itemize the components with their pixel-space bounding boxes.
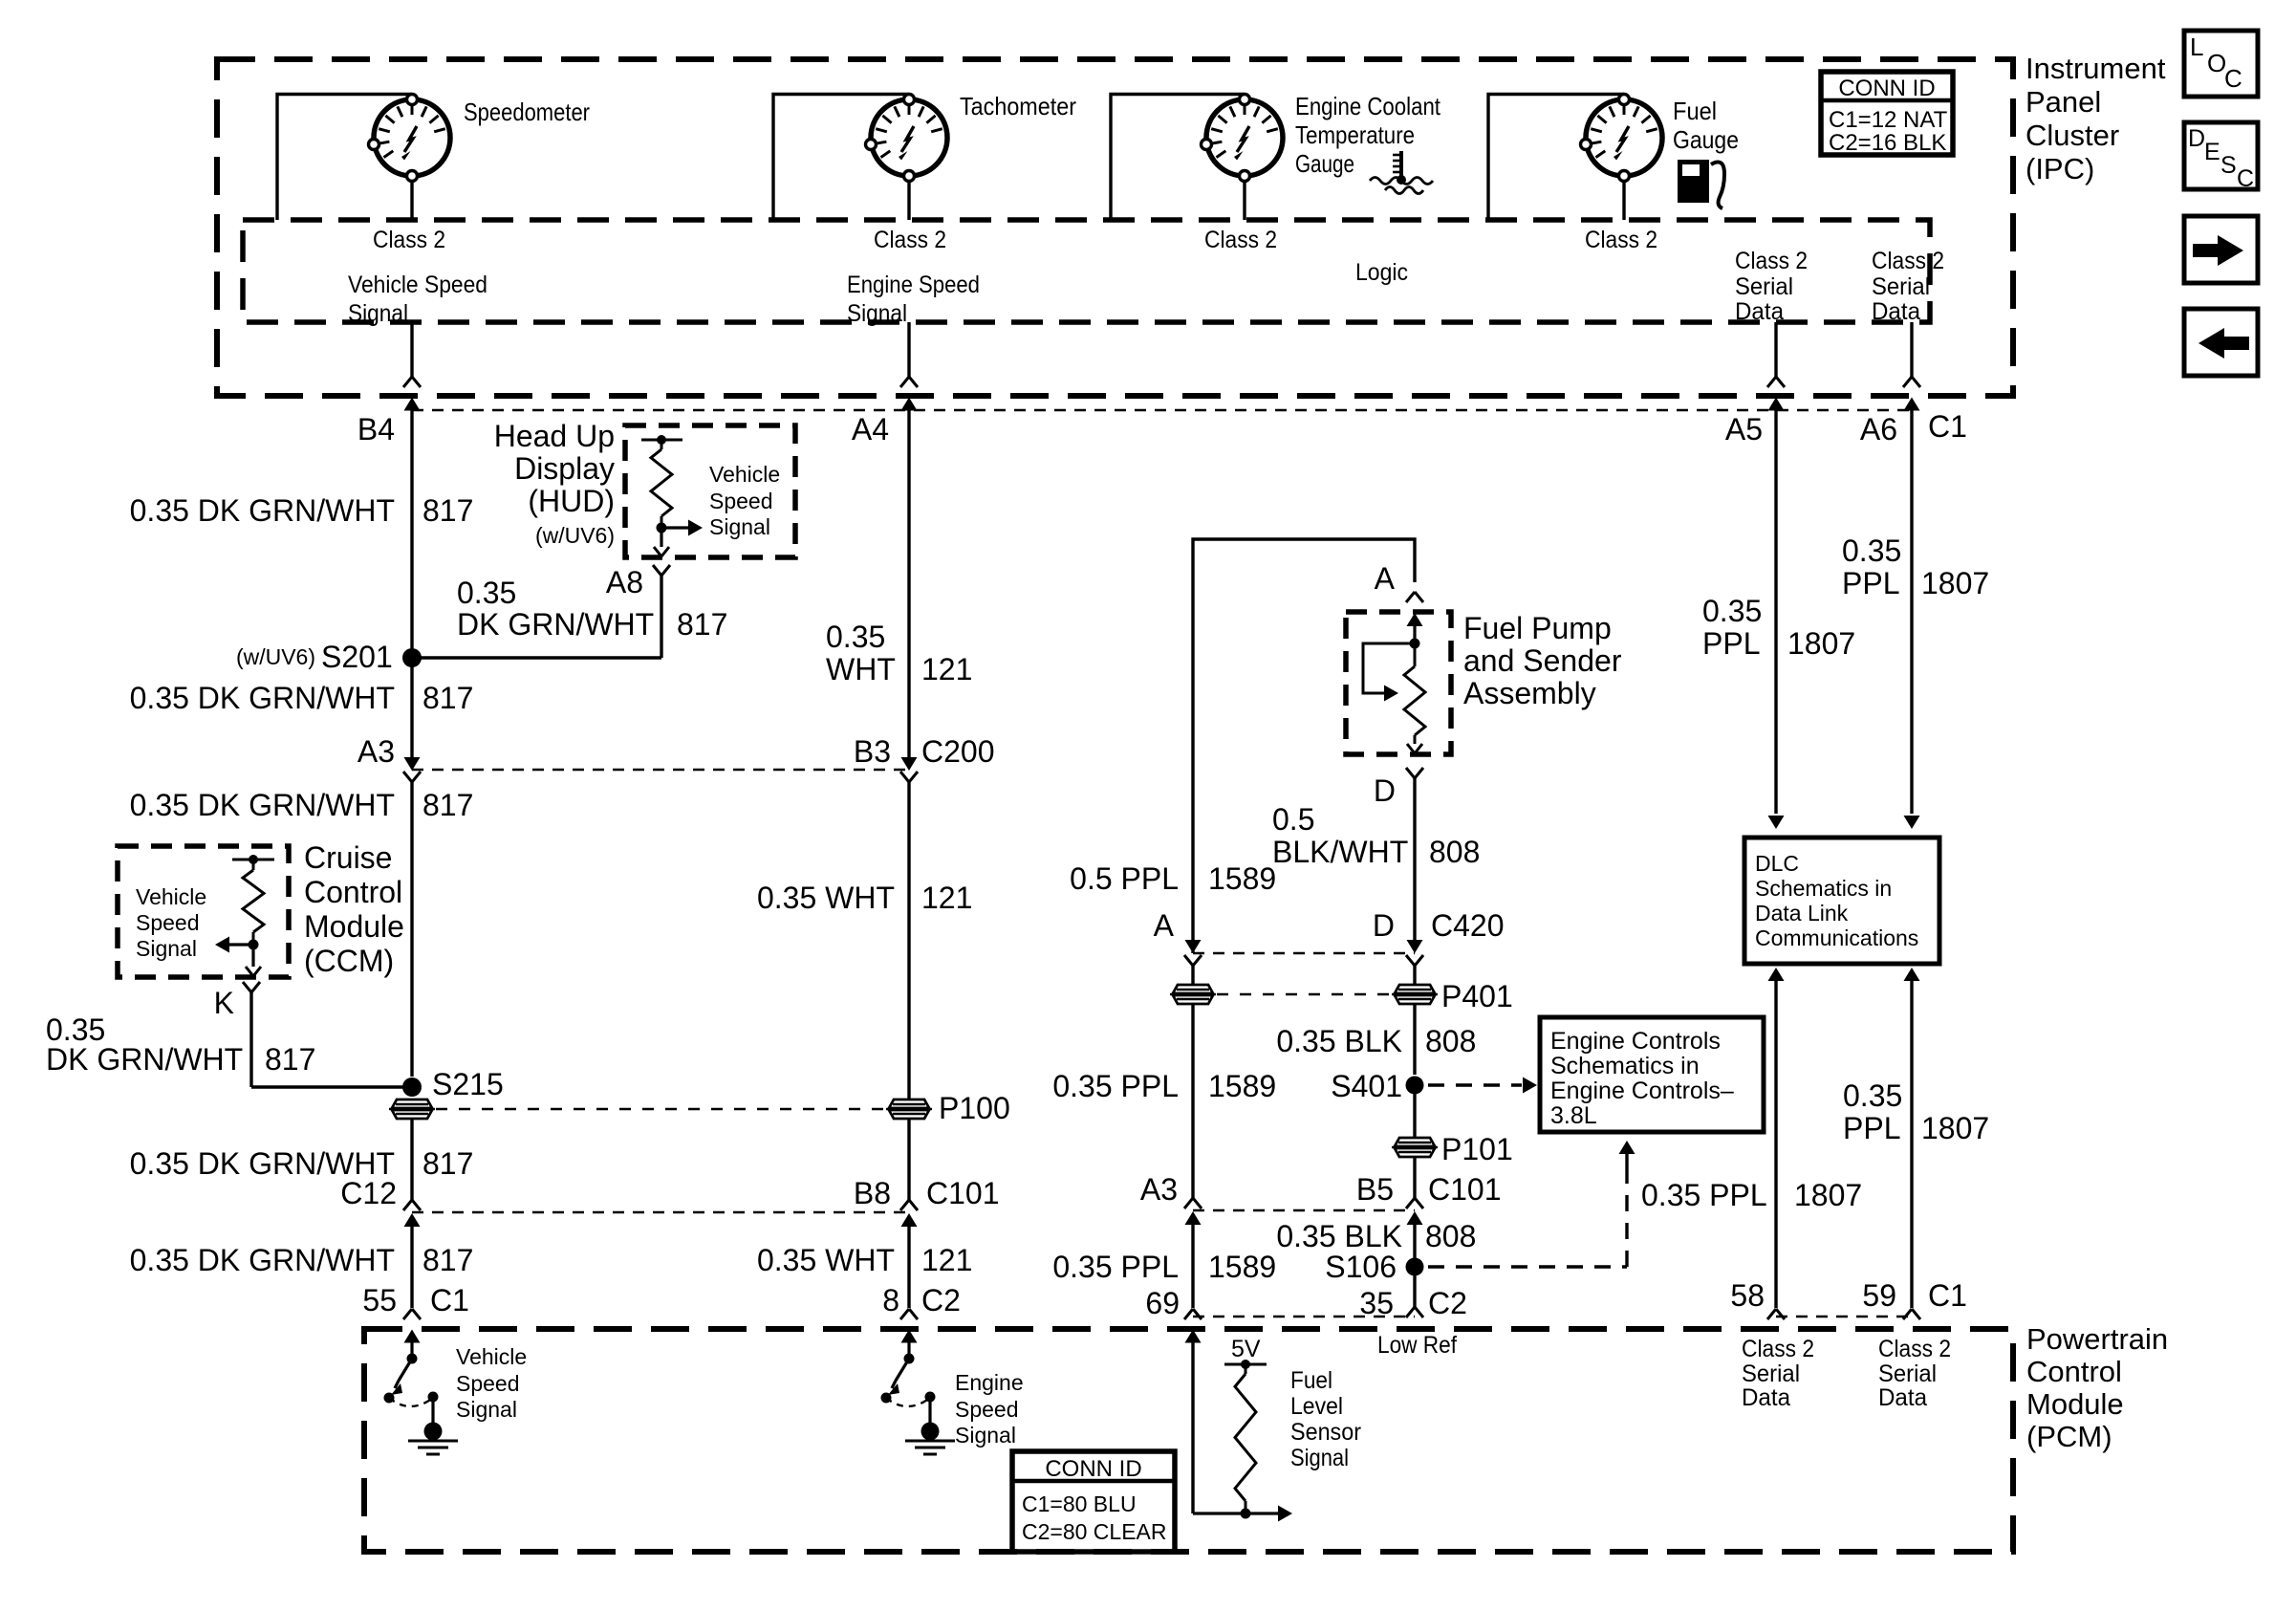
svg-text:69: 69 xyxy=(1145,1286,1180,1320)
label Vehicle Speed Signal (IPC pin) xyxy=(348,272,487,327)
svg-text:S106: S106 xyxy=(1325,1250,1397,1284)
pin label C101 (tach wire) xyxy=(926,1176,1000,1210)
svg-text:1807: 1807 xyxy=(1921,566,1989,600)
svg-text:Data: Data xyxy=(1735,298,1784,325)
svg-text:Class 2: Class 2 xyxy=(1742,1336,1814,1362)
svg-text:C101: C101 xyxy=(1428,1172,1502,1207)
wire label 0.35 BLK 808 (above S401) xyxy=(1276,1024,1476,1058)
engine coolant temperature gauge xyxy=(1202,95,1284,182)
svg-text:S201: S201 xyxy=(321,640,393,674)
CCM vehicle speed signal resistor xyxy=(232,855,274,945)
pin label A3 (BCM side) xyxy=(357,734,395,769)
connector arrow into IPC pin A4 xyxy=(901,398,918,425)
LOC hyperlink icon box xyxy=(2184,31,2258,97)
wire label 0.35 DK GRN/WHT 817 (row3 below C200) xyxy=(130,788,474,822)
svg-text:Cluster: Cluster xyxy=(2025,119,2119,152)
dashed reference wire from S106 up to Engine Controls note xyxy=(1428,1141,1635,1267)
svg-text:808: 808 xyxy=(1429,835,1480,869)
svg-text:Assembly: Assembly xyxy=(1463,676,1596,710)
svg-text:Schematics in: Schematics in xyxy=(1550,1053,1700,1079)
CCM signal arrow (to Vehicle Speed Signal label) xyxy=(215,937,259,953)
wire - fuel gauge feed elbow xyxy=(1488,95,1624,221)
svg-text:Data Link: Data Link xyxy=(1755,901,1849,925)
svg-text:8: 8 xyxy=(882,1283,899,1317)
splice S106 xyxy=(1406,1256,1424,1308)
svg-text:C1: C1 xyxy=(1928,409,1967,444)
svg-text:L: L xyxy=(2190,33,2203,61)
svg-text:0.35 DK GRN/WHT: 0.35 DK GRN/WHT xyxy=(130,788,395,822)
connector fork at PCM pin 59 xyxy=(1903,1309,1920,1319)
dashed reference arrow from S401 to Engine Controls note xyxy=(1428,1078,1537,1094)
svg-text:817: 817 xyxy=(422,1243,473,1277)
previous-page arrow icon box (left arrow) xyxy=(2184,309,2258,376)
label Cruise Control Module (CCM) xyxy=(304,840,404,978)
svg-text:DK GRN/WHT: DK GRN/WHT xyxy=(46,1042,243,1077)
svg-text:(w/UV6): (w/UV6) xyxy=(236,644,315,669)
fuel pump icon xyxy=(1678,160,1724,208)
Head Up Display (HUD) dashed box xyxy=(625,425,795,557)
svg-text:C1=80 BLU: C1=80 BLU xyxy=(1022,1491,1137,1516)
svg-text:A5: A5 xyxy=(1725,412,1763,446)
svg-text:1589: 1589 xyxy=(1208,1069,1276,1103)
connector C420 joint (BLK/WHT wire) xyxy=(1406,940,1423,966)
wire - PCM pin 69 to fuel level sensor circuit xyxy=(1185,1330,1246,1514)
wire label 0.35 DK GRN/WHT 817 (A8 branch) xyxy=(457,576,727,642)
label Vehicle Speed Signal (HUD) xyxy=(709,462,780,539)
label Class 2 Serial Data (IPC pin A5) xyxy=(1735,248,1808,325)
svg-text:B4: B4 xyxy=(357,412,395,446)
connector arrow into IPC pin A6 xyxy=(1904,398,1920,425)
svg-text:B8: B8 xyxy=(854,1176,891,1210)
wire label 0.35 DK GRN/WHT 817 (row5 above PCM) xyxy=(130,1243,474,1277)
svg-text:C2=16 BLK: C2=16 BLK xyxy=(1829,130,1946,156)
vehicle speed signal switch and ground (PCM) xyxy=(384,1330,459,1455)
svg-text:Vehicle: Vehicle xyxy=(456,1344,527,1369)
pin label C2 (PCM fuel) xyxy=(1428,1286,1467,1320)
svg-text:Serial: Serial xyxy=(1735,273,1793,300)
grommet P100 (tachometer wire) xyxy=(886,1099,932,1119)
svg-text:Fuel Pump: Fuel Pump xyxy=(1463,611,1612,645)
svg-text:817: 817 xyxy=(677,607,727,642)
svg-text:0.35: 0.35 xyxy=(1843,1078,1902,1113)
wire label 0.35 PPL 1589 (mid) xyxy=(1052,1069,1276,1103)
DESC hyperlink icon box xyxy=(2184,122,2258,192)
svg-text:E: E xyxy=(2204,139,2220,165)
svg-text:Display: Display xyxy=(514,451,615,486)
grommet P401 (PPL wire) xyxy=(1170,985,1216,1004)
svg-text:0.5: 0.5 xyxy=(1272,802,1314,837)
svg-text:121: 121 xyxy=(921,881,972,915)
wire 121 segment P100 to B8 xyxy=(907,1120,910,1200)
label Class 2 Serial Data (IPC pin A6) xyxy=(1872,248,1944,325)
svg-text:Signal: Signal xyxy=(136,936,197,961)
wire - IPC internal drop at x=951 with connector fork xyxy=(900,322,918,387)
dashed pass-through line P100 xyxy=(436,1108,883,1110)
pin label A8 xyxy=(606,565,643,599)
svg-text:0.35 PPL: 0.35 PPL xyxy=(1052,1250,1179,1284)
svg-text:DLC: DLC xyxy=(1755,851,1799,876)
svg-text:817: 817 xyxy=(265,1042,315,1077)
svg-text:0.35 BLK: 0.35 BLK xyxy=(1276,1219,1402,1253)
svg-text:0.35 WHT: 0.35 WHT xyxy=(757,881,895,915)
svg-text:C2: C2 xyxy=(921,1283,961,1317)
svg-text:D: D xyxy=(1374,773,1396,808)
wire label 0.35 PPL 1589 (lower) xyxy=(1052,1250,1276,1284)
svg-text:0.35: 0.35 xyxy=(1702,594,1762,628)
svg-text:Engine Controls: Engine Controls xyxy=(1550,1028,1721,1055)
pin label C1 (IPC connector) xyxy=(1928,409,1967,444)
HUD resistor down arrow to box edge xyxy=(654,528,669,556)
svg-text:5V: 5V xyxy=(1231,1336,1261,1362)
label P100 xyxy=(939,1091,1010,1125)
svg-text:Speed: Speed xyxy=(456,1371,520,1396)
wire label 0.35 PPL 1807 (pin59 riser) xyxy=(1843,1078,1989,1145)
svg-text:S215: S215 xyxy=(432,1067,504,1101)
svg-text:PPL: PPL xyxy=(1843,1111,1900,1145)
label Fuel Pump and Sender Assembly xyxy=(1463,611,1622,710)
thin dashed connector line C200 xyxy=(412,769,909,771)
wire - IPC internal drop at x=1858 with connector fork xyxy=(1767,322,1785,387)
svg-text:S401: S401 xyxy=(1331,1069,1402,1103)
wire label 0.35 WHT 121 (upper) xyxy=(826,620,972,686)
svg-text:Schematics in: Schematics in xyxy=(1755,876,1892,901)
label Instrument Panel Cluster (IPC) xyxy=(2025,52,2166,185)
svg-text:C1: C1 xyxy=(430,1283,469,1317)
svg-text:(CCM): (CCM) xyxy=(304,944,394,978)
svg-text:Low Ref: Low Ref xyxy=(1377,1332,1457,1359)
fuel level sensor signal arrow xyxy=(1241,1506,1293,1522)
svg-text:S: S xyxy=(2220,152,2237,179)
svg-text:Panel: Panel xyxy=(2025,85,2101,119)
svg-text:and Sender: and Sender xyxy=(1463,643,1622,678)
svg-text:817: 817 xyxy=(422,788,473,822)
svg-text:Fuel: Fuel xyxy=(1673,97,1717,125)
wire - speedometer feed elbow xyxy=(277,95,412,221)
svg-text:0.35 DK GRN/WHT: 0.35 DK GRN/WHT xyxy=(130,681,395,715)
svg-text:C101: C101 xyxy=(926,1176,1000,1210)
pin label D (C420) xyxy=(1373,908,1395,943)
svg-text:817: 817 xyxy=(422,493,473,528)
wire - IPC internal drop at x=431 with connector fork xyxy=(403,322,421,387)
fuel pump pin A arrow inside box xyxy=(1407,613,1423,643)
wire - CCM pin K drop to S215 xyxy=(243,982,260,1087)
svg-text:Temperature: Temperature xyxy=(1295,120,1415,149)
label Fuel Level Sensor Signal xyxy=(1290,1367,1361,1471)
svg-text:Speedometer: Speedometer xyxy=(464,98,590,126)
svg-text:Engine Controls–: Engine Controls– xyxy=(1550,1078,1734,1104)
wire 808 segment C420 to P401 xyxy=(1413,966,1416,1075)
engine speed signal switch and ground (PCM) xyxy=(881,1330,956,1455)
label Head Up Display (HUD) (w/UV6) xyxy=(494,419,615,548)
wire - coolant gauge to logic box xyxy=(1243,181,1245,220)
label Engine Speed Signal (PCM) xyxy=(955,1370,1024,1448)
svg-text:0.35: 0.35 xyxy=(1842,533,1901,568)
wire label 0.35 WHT 121 (middle) xyxy=(757,881,972,915)
Instrument Panel Cluster (IPC) outer dashed box xyxy=(217,59,2013,396)
svg-text:Speed: Speed xyxy=(709,489,773,513)
pin label B8 xyxy=(854,1176,891,1210)
label Powertrain Control Module (PCM) xyxy=(2026,1322,2168,1453)
svg-text:Level: Level xyxy=(1290,1393,1343,1420)
svg-text:0.35 DK GRN/WHT: 0.35 DK GRN/WHT xyxy=(130,493,395,528)
arrow into DLC (right) xyxy=(1904,816,1920,829)
wire - IPC internal drop at x=2000 with connector fork xyxy=(1903,322,1920,387)
label Class 2 (speedometer) xyxy=(373,227,445,253)
pin label C101 (fuel wire) xyxy=(1428,1172,1502,1207)
wire label 0.5 PPL 1589 xyxy=(1070,861,1276,896)
label Vehicle Speed Signal (PCM) xyxy=(456,1344,527,1422)
svg-text:Speed: Speed xyxy=(955,1397,1019,1422)
svg-text:P401: P401 xyxy=(1441,979,1513,1013)
svg-text:0.35: 0.35 xyxy=(826,620,885,654)
svg-text:(HUD): (HUD) xyxy=(528,484,615,518)
wire - DLC to PCM pin 59 xyxy=(1904,968,1920,1308)
wire - A8 riser from S201 to HUD pin A8 xyxy=(653,565,670,658)
pin label B3 xyxy=(854,734,891,769)
wire - DLC to PCM pin 58 xyxy=(1768,968,1785,1308)
svg-text:Class 2: Class 2 xyxy=(1735,248,1808,274)
svg-text:A3: A3 xyxy=(1140,1172,1178,1207)
label Class 2 (fuel gauge) xyxy=(1585,227,1657,253)
thin dashed connector line C420 xyxy=(1193,952,1415,954)
pin label C2 (PCM, tach wire) xyxy=(921,1283,961,1317)
svg-text:B5: B5 xyxy=(1356,1172,1394,1207)
pin label C1 (PCM serial) xyxy=(1928,1278,1967,1313)
pin label B4 xyxy=(357,412,395,446)
svg-text:C2=80 CLEAR: C2=80 CLEAR xyxy=(1022,1519,1167,1544)
label Vehicle Speed Signal (CCM) xyxy=(136,884,206,961)
wire label 0.35 DK GRN/WHT 817 (row4 below P100) xyxy=(130,1146,474,1181)
fuel gauge xyxy=(1581,95,1663,182)
svg-text:C: C xyxy=(2237,165,2254,192)
thin dashed connector line PCM C1 serial xyxy=(1776,1316,1912,1317)
fuel sender resistor xyxy=(1404,643,1425,753)
svg-text:Vehicle Speed: Vehicle Speed xyxy=(348,272,487,298)
svg-text:59: 59 xyxy=(1862,1278,1896,1313)
svg-text:Engine: Engine xyxy=(955,1370,1024,1395)
svg-text:Fuel: Fuel xyxy=(1290,1367,1332,1394)
svg-text:P101: P101 xyxy=(1441,1132,1513,1166)
svg-text:Serial: Serial xyxy=(1872,273,1930,300)
svg-text:Class 2: Class 2 xyxy=(874,227,946,253)
next-page arrow icon box (right arrow) xyxy=(2184,216,2258,283)
svg-text:(PCM): (PCM) xyxy=(2026,1420,2112,1453)
svg-text:Signal: Signal xyxy=(847,300,907,327)
coolant temperature icon (thermometer in liquid) xyxy=(1370,151,1433,194)
svg-text:Class 2: Class 2 xyxy=(1585,227,1657,253)
wire - class 2 serial data A5 to DLC xyxy=(1774,425,1777,814)
svg-text:121: 121 xyxy=(921,1243,972,1277)
svg-text:Communications: Communications xyxy=(1755,925,1918,950)
svg-text:PPL: PPL xyxy=(1842,566,1899,600)
connector arrow into IPC pin B4 xyxy=(404,398,421,425)
svg-text:817: 817 xyxy=(422,681,473,715)
pin label A6 xyxy=(1860,412,1897,446)
pin label 55 xyxy=(362,1283,397,1317)
svg-text:1807: 1807 xyxy=(1794,1178,1862,1212)
connector fork at PCM pin 58 xyxy=(1767,1309,1785,1319)
svg-text:3.8L: 3.8L xyxy=(1550,1102,1597,1129)
svg-text:Control: Control xyxy=(304,875,402,909)
pin label A3 (C101 PPL) xyxy=(1140,1172,1178,1207)
svg-text:Gauge: Gauge xyxy=(1673,125,1739,154)
wire label 0.35 BLK 808 (below C101) xyxy=(1276,1219,1476,1253)
pin label C12 xyxy=(340,1176,397,1210)
dashed pass-through line P401 xyxy=(1217,993,1389,995)
pin label A (fuel pump assembly) xyxy=(1375,561,1396,596)
svg-text:121: 121 xyxy=(921,652,972,686)
svg-text:0.35 BLK: 0.35 BLK xyxy=(1276,1024,1402,1058)
svg-text:1589: 1589 xyxy=(1208,861,1276,896)
wire - fuel sender pin D drop xyxy=(1406,768,1423,942)
svg-text:C1=12 NAT: C1=12 NAT xyxy=(1829,107,1948,133)
svg-text:C200: C200 xyxy=(921,734,995,769)
grommet P100 (speedometer wire) xyxy=(389,1099,435,1119)
note box: DLC Schematics in Data Link Communications xyxy=(1744,838,1939,964)
svg-text:C2: C2 xyxy=(1428,1286,1467,1320)
svg-text:A: A xyxy=(1375,561,1396,596)
CONN ID table (PCM): C1=80 BLU, C2=80 CLEAR xyxy=(1012,1451,1175,1552)
svg-text:Powertrain: Powertrain xyxy=(2026,1322,2168,1356)
svg-text:Engine Speed: Engine Speed xyxy=(847,272,980,298)
thin dashed connector line PCM C2 xyxy=(1193,1316,1415,1317)
wire 817 segment B4 to A3 xyxy=(410,425,413,757)
svg-text:Vehicle: Vehicle xyxy=(136,884,206,909)
connector C101 joint on speedometer wire (C12 side) xyxy=(403,1200,421,1308)
wire label 0.35 WHT 121 (lower) xyxy=(757,1243,972,1277)
connector C420 joint (PPL wire) xyxy=(1184,940,1202,966)
connector C101 joint (BLK wire) xyxy=(1406,1198,1423,1256)
svg-text:DK GRN/WHT: DK GRN/WHT xyxy=(457,607,654,642)
svg-text:Signal: Signal xyxy=(348,300,408,327)
svg-text:A6: A6 xyxy=(1860,412,1897,446)
pin label 69 xyxy=(1145,1286,1180,1320)
label Class 2 Serial Data (PCM pin 59) xyxy=(1878,1336,1951,1411)
wire - tachometer feed elbow xyxy=(773,95,909,221)
pin label B5 xyxy=(1356,1172,1394,1207)
svg-text:A: A xyxy=(1154,908,1175,943)
svg-text:D: D xyxy=(2188,125,2205,152)
svg-text:C: C xyxy=(2224,64,2242,93)
thin dashed connector line (IPC C1 face) xyxy=(412,409,1912,411)
label Low Ref xyxy=(1377,1332,1457,1359)
wire 121 segment A4 to C200 xyxy=(907,425,910,757)
speedometer gauge xyxy=(369,95,451,182)
svg-text:58: 58 xyxy=(1730,1278,1765,1313)
svg-text:Module: Module xyxy=(2026,1387,2124,1421)
label P101 xyxy=(1441,1132,1513,1166)
svg-text:Head Up: Head Up xyxy=(494,419,615,453)
pin label 59 xyxy=(1862,1278,1896,1313)
svg-text:0.5 PPL: 0.5 PPL xyxy=(1070,861,1179,896)
label S401 xyxy=(1331,1069,1402,1103)
svg-text:0.35 PPL: 0.35 PPL xyxy=(1641,1178,1767,1212)
note box: Engine Controls Schematics in Engine Controls-3.8L xyxy=(1540,1017,1764,1132)
svg-text:BLK/WHT: BLK/WHT xyxy=(1272,835,1408,869)
connector fork at PCM pin 55 xyxy=(403,1309,421,1319)
svg-text:Data: Data xyxy=(1872,298,1920,325)
IPC internal dashed sub-box (gauge logic block) xyxy=(243,220,1930,322)
svg-text:Gauge: Gauge xyxy=(1295,149,1354,178)
label Class 2 Serial Data (PCM pin 58) xyxy=(1742,1336,1814,1411)
svg-text:Data: Data xyxy=(1878,1384,1927,1411)
pin label 35 xyxy=(1359,1286,1394,1320)
wire - fuel gauge to logic box xyxy=(1622,181,1625,220)
svg-text:Vehicle: Vehicle xyxy=(709,462,780,487)
pin label 58 xyxy=(1730,1278,1765,1313)
svg-text:Class 2: Class 2 xyxy=(1872,248,1944,274)
label P401 xyxy=(1441,979,1513,1013)
svg-text:808: 808 xyxy=(1425,1024,1476,1058)
pin label C420 xyxy=(1431,908,1505,943)
svg-text:(IPC): (IPC) xyxy=(2025,152,2094,185)
Powertrain Control Module (PCM) dashed box xyxy=(364,1329,2013,1552)
wire 808 segment S401 to P101 xyxy=(1413,1085,1416,1137)
svg-text:Serial: Serial xyxy=(1742,1361,1800,1387)
connector arrow into IPC pin A5 xyxy=(1768,398,1785,425)
wire 1589 segment C420 to P401 xyxy=(1191,966,1194,1198)
wire - speedometer to logic box xyxy=(410,181,413,220)
svg-text:Tachometer: Tachometer xyxy=(960,92,1076,120)
wire label 0.5 BLK/WHT 808 xyxy=(1272,802,1480,869)
svg-text:C1: C1 xyxy=(1928,1278,1967,1313)
connector fork at fuel pump pin A xyxy=(1406,592,1423,602)
svg-text:1589: 1589 xyxy=(1208,1250,1276,1284)
pin label C200 xyxy=(921,734,995,769)
svg-text:D: D xyxy=(1373,908,1395,943)
svg-text:C420: C420 xyxy=(1431,908,1505,943)
svg-text:Class 2: Class 2 xyxy=(373,227,445,253)
svg-text:Logic: Logic xyxy=(1355,259,1408,286)
connector fork at PCM pin 35 xyxy=(1406,1307,1423,1317)
svg-text:Cruise: Cruise xyxy=(304,840,392,875)
grommet P401 (BLK wire) xyxy=(1392,985,1438,1004)
HUD signal arrow (to Vehicle Speed Signal label) xyxy=(657,520,704,536)
wire - coolant gauge feed elbow xyxy=(1111,95,1245,221)
label Speedometer xyxy=(464,98,590,126)
label Tachometer xyxy=(960,92,1076,120)
svg-text:Instrument: Instrument xyxy=(2025,52,2166,85)
svg-text:Speed: Speed xyxy=(136,910,200,935)
svg-text:CONN ID: CONN ID xyxy=(1838,76,1935,101)
svg-text:Signal: Signal xyxy=(1290,1445,1349,1471)
wire - fuel sender top run xyxy=(1193,539,1415,953)
svg-text:Control: Control xyxy=(2026,1355,2122,1388)
wire label 0.35 DK GRN/WHT 817 (K branch) xyxy=(46,1012,315,1077)
connector C101 joint (PPL wire) xyxy=(1184,1198,1202,1308)
wire 817 segment below C200 xyxy=(410,782,413,1077)
wire label 0.35 DK GRN/WHT 817 (row1) xyxy=(130,493,474,528)
svg-text:(w/UV6): (w/UV6) xyxy=(535,523,615,548)
svg-text:Module: Module xyxy=(304,909,404,944)
svg-text:55: 55 xyxy=(362,1283,397,1317)
wire 121 segment C200 to P100 xyxy=(907,782,910,1099)
svg-text:A4: A4 xyxy=(852,412,889,446)
wire label 0.35 PPL 1807 (A5 drop) xyxy=(1702,594,1855,661)
wire label 0.35 DK GRN/WHT 817 (row2 below S201) xyxy=(130,681,474,715)
svg-text:CONN ID: CONN ID xyxy=(1045,1456,1141,1482)
svg-text:0.35 PPL: 0.35 PPL xyxy=(1052,1069,1179,1103)
pin label A5 xyxy=(1725,412,1763,446)
svg-text:Engine Coolant: Engine Coolant xyxy=(1295,92,1441,120)
svg-text:WHT: WHT xyxy=(826,652,896,686)
tachometer gauge xyxy=(866,95,948,182)
svg-text:P100: P100 xyxy=(939,1091,1010,1125)
connector C200 joint on speedometer wire (A3/B3) xyxy=(403,757,421,782)
CCM resistor down arrow to box edge xyxy=(246,945,261,976)
svg-text:1807: 1807 xyxy=(1921,1111,1989,1145)
svg-text:A8: A8 xyxy=(606,565,643,599)
